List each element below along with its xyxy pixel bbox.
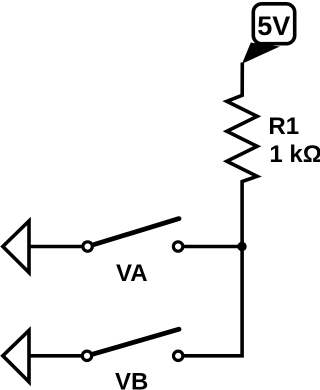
svg-text:1 kΩ: 1 kΩ [269, 141, 320, 168]
svg-text:5V: 5V [257, 11, 290, 41]
svg-text:R1: R1 [268, 113, 299, 140]
svg-text:VB: VB [115, 369, 148, 390]
svg-text:VA: VA [116, 260, 148, 287]
